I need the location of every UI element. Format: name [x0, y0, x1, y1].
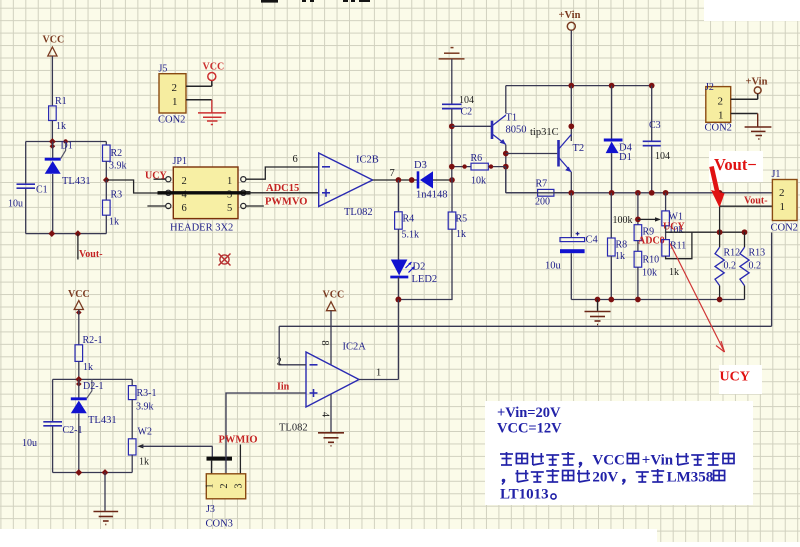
wire D3 to C2 column: [433, 179, 452, 181]
wire bottom rail (lower block): [53, 472, 133, 474]
W2 wiper arrow: [137, 444, 143, 448]
wire R12 down: [719, 286, 721, 300]
wire IC2A output: [359, 379, 398, 381]
svg-text:J1: J1: [772, 169, 781, 180]
svg-text:6: 6: [293, 154, 298, 165]
svg-text:HEADER 3X2: HEADER 3X2: [170, 223, 233, 234]
junction dots (lower): [75, 376, 82, 383]
svg-text:3.9k: 3.9k: [136, 402, 154, 413]
svg-text:8050: 8050: [506, 125, 527, 136]
junction dots R12 R13 top: [717, 229, 723, 235]
capacitor C1: [17, 183, 36, 185]
svg-text:1: 1: [376, 368, 381, 379]
jumper thick wire pins 4-3: [158, 191, 251, 194]
svg-text:J5: J5: [159, 64, 168, 75]
wire +Vin rail: [506, 85, 652, 87]
svg-text:W2: W2: [138, 427, 152, 438]
svg-text:D1: D1: [619, 152, 632, 163]
svg-text:VCC: VCC: [592, 453, 625, 469]
connector JP1 HEADER 3X2: [173, 167, 238, 219]
svg-text:R2: R2: [111, 148, 123, 159]
JP1 pin stubs left: [154, 178, 166, 180]
resistor R7 200: [505, 167, 507, 193]
wire T2 emitter down: [570, 172, 572, 193]
svg-text:ADC0: ADC0: [638, 236, 665, 247]
ground (IC2A): [318, 433, 344, 446]
wire ground to C2: [451, 59, 453, 104]
svg-text:Vout−: Vout−: [714, 155, 757, 174]
svg-text:PWMVO: PWMVO: [265, 197, 307, 208]
svg-text:0.2: 0.2: [724, 261, 737, 272]
svg-text:CON2: CON2: [158, 115, 185, 126]
svg-text:R4: R4: [403, 214, 415, 225]
svg-text:R8: R8: [616, 240, 628, 251]
op-amp IC2A TL082: [306, 352, 359, 407]
wire C1 to bottom rail: [25, 189, 27, 234]
svg-text:2: 2: [779, 187, 785, 199]
svg-text:UCY: UCY: [663, 222, 685, 233]
svg-text:2: 2: [718, 96, 724, 108]
wire bottom rail of block: [26, 233, 107, 235]
wire R5 down: [451, 229, 453, 299]
svg-text:4: 4: [320, 412, 331, 418]
svg-text:D2: D2: [413, 262, 426, 273]
svg-text:LM358: LM358: [667, 470, 714, 486]
resistor R2: [105, 142, 107, 146]
note line: shi ji zhi zuo shi, VCC he +Vin jie zai yi qi: [500, 452, 513, 465]
white patch behind Vout- annotation: [709, 151, 763, 182]
diode D3 1n4148: [417, 171, 420, 188]
svg-text:R6: R6: [471, 153, 483, 164]
svg-text:VCC=12V: VCC=12V: [497, 421, 562, 437]
wire R9/R10 column: [637, 193, 639, 225]
svg-text:1k: 1k: [615, 251, 625, 262]
junction dots output node: [396, 177, 402, 183]
wire feedback from J1 down: [771, 233, 773, 327]
ground (J2): [745, 127, 772, 139]
svg-text:5.1k: 5.1k: [402, 230, 420, 241]
wire J3 pin2 up to IC2A: [226, 393, 306, 474]
svg-text:1: 1: [780, 201, 786, 213]
svg-text:D2-1: D2-1: [83, 381, 104, 392]
svg-text:J2: J2: [705, 82, 714, 93]
JP1 pin5 stub: [246, 205, 264, 207]
svg-text:C3: C3: [649, 120, 661, 131]
svg-text:VCC: VCC: [323, 290, 345, 301]
no-ERC marker (red cross): [219, 254, 231, 266]
node R2/R3 junction: [103, 177, 110, 184]
wire bar to J3 pin1: [211, 461, 213, 474]
svg-text:D1: D1: [61, 141, 73, 152]
capacitor C2 104: [442, 103, 462, 105]
connector J3 CON3: [206, 474, 245, 499]
wire VCC to pin8: [330, 311, 332, 365]
capacitor C2-1: [43, 421, 62, 423]
svg-text:D3: D3: [414, 160, 427, 171]
wire W2 bottom: [131, 455, 133, 473]
svg-text:5: 5: [227, 203, 232, 214]
wire W1/R11 node to R12 R13: [666, 231, 745, 233]
wire D4 to output rail: [611, 153, 613, 193]
svg-text:R10: R10: [643, 255, 660, 266]
svg-text:10k: 10k: [471, 176, 486, 187]
junction dots bottom rail: [595, 297, 601, 303]
wire J3 pin3 stub (PWMIO): [239, 445, 241, 474]
wire R3-1 to W2: [131, 400, 133, 439]
resistor R1: [49, 106, 57, 121]
transistor T1 8050: [492, 115, 506, 144]
wire pin4 to ground: [330, 395, 332, 433]
svg-text:8: 8: [319, 340, 330, 345]
svg-text:10k: 10k: [642, 268, 657, 279]
wire R2 to node: [105, 161, 107, 180]
wire C3 to output rail: [651, 146, 653, 193]
wire J2 pin2 to +Vin: [731, 98, 758, 100]
svg-text:C2: C2: [461, 107, 473, 118]
svg-text:1k: 1k: [83, 362, 93, 373]
junction dots bottom (lower): [75, 469, 82, 476]
svg-text:R12: R12: [724, 248, 741, 259]
svg-text:104: 104: [655, 151, 670, 162]
svg-text:R7: R7: [536, 179, 548, 190]
capacitor C3 104: [651, 86, 653, 141]
wire bottom node D2-R5: [398, 299, 452, 301]
annotation big red arrow: [712, 167, 718, 194]
svg-text:1k: 1k: [669, 267, 679, 278]
LED D2: [391, 260, 408, 276]
wire left branch down to C2-1: [52, 379, 54, 421]
wire R3 to bottom rail: [105, 215, 107, 233]
wire base node to T1: [452, 125, 492, 127]
svg-text:+Vin=20V: +Vin=20V: [497, 405, 561, 421]
resistor R11: [662, 240, 670, 257]
potentiometer wiper arrow to W1: [638, 218, 658, 220]
svg-text:J3: J3: [206, 504, 215, 515]
note line: , ji yun fang dian ya 20V, yun fang LM358 huo: [502, 479, 506, 483]
svg-text:1k: 1k: [139, 457, 149, 468]
wire bottom rail (right): [571, 299, 744, 301]
svg-text:6: 6: [182, 203, 187, 214]
svg-text:LT1013: LT1013: [500, 487, 549, 503]
svg-text:1k: 1k: [56, 121, 66, 132]
svg-text:1k: 1k: [456, 229, 466, 240]
svg-text:R3: R3: [111, 190, 123, 201]
svg-text:10u: 10u: [8, 199, 23, 210]
svg-text:CON3: CON3: [206, 519, 233, 530]
svg-text:C4: C4: [586, 235, 599, 246]
wire J2 pin1 to ground: [731, 113, 758, 115]
svg-text:JP1: JP1: [173, 156, 187, 167]
wire T1 collector up to +Vin rail: [505, 86, 507, 114]
svg-text:R13: R13: [749, 248, 766, 259]
svg-text:100k: 100k: [613, 215, 633, 226]
svg-text:IC2A: IC2A: [343, 342, 367, 353]
wire top rail (lower block): [53, 378, 133, 380]
annotation thin red arrow to UCY: [670, 244, 725, 353]
wire IC2A output rises to node: [397, 300, 399, 380]
junction dots bottom rail: [48, 230, 55, 237]
ground (J5, red): [198, 113, 226, 125]
wire left branch down: [25, 142, 27, 184]
svg-text:Vout-: Vout-: [744, 196, 768, 207]
potentiometer W2 1k: [128, 439, 136, 455]
wire J1 pin1 net: [720, 205, 773, 207]
wire long feedback rail: [279, 325, 771, 327]
wire TL431 anode down: [52, 174, 54, 234]
ground (lower block): [104, 473, 106, 511]
svg-text:C1: C1: [36, 185, 48, 196]
svg-text:1: 1: [227, 176, 232, 187]
connector J5: [159, 74, 186, 113]
resistor R8 1k: [610, 193, 612, 238]
svg-text:R3-1: R3-1: [137, 388, 157, 399]
svg-text:CON2: CON2: [705, 123, 732, 134]
junction dots on +Vin rail: [568, 83, 574, 89]
svg-text:3.9k: 3.9k: [109, 161, 127, 172]
svg-text:IC2B: IC2B: [356, 155, 379, 166]
wire JP1 pin1 to IC2B inverting input: [246, 167, 319, 179]
top edge cropped text fragments: [261, 0, 370, 3]
svg-text:TL431: TL431: [62, 176, 91, 187]
wire node to JP1 pin4 (UCY net): [106, 180, 165, 193]
wire R10 down: [637, 267, 639, 299]
svg-text:3: 3: [233, 484, 244, 489]
junction dot R6 node: [503, 164, 509, 170]
svg-text:+Vin: +Vin: [746, 77, 768, 88]
wire C2 down: [451, 109, 453, 180]
svg-text:R1: R1: [55, 96, 67, 107]
svg-text:T2: T2: [573, 143, 585, 154]
svg-text:+Vin: +Vin: [559, 10, 581, 21]
svg-text:TL082: TL082: [344, 207, 373, 218]
wire top rail of TL431 block: [26, 141, 107, 143]
wire to T2 base: [506, 153, 558, 155]
svg-text:0.2: 0.2: [749, 261, 762, 272]
wire R13 down: [744, 286, 746, 300]
wire JP1 pin3 to IC2B non-inverting input: [246, 192, 319, 194]
capacitor C4 10u (electrolytic): [570, 193, 572, 238]
svg-text:UCY: UCY: [145, 171, 167, 182]
wire C2-1 down: [52, 426, 54, 472]
junction dots output rail: [568, 190, 574, 196]
svg-text:7: 7: [390, 168, 395, 179]
wire +Vin down to rail: [570, 30, 572, 85]
svg-text:TL082: TL082: [279, 423, 308, 434]
JP1 pin circles right: [241, 177, 246, 182]
resistor R5 1k: [451, 180, 453, 212]
svg-text:20V: 20V: [592, 470, 618, 486]
svg-text:1k: 1k: [109, 217, 119, 228]
svg-text:UCY: UCY: [720, 370, 750, 385]
resistor R13 0.2: [744, 232, 746, 247]
resistor R12 0.2: [719, 193, 721, 248]
thick jumper bar at J3: [207, 457, 233, 461]
svg-text:ADC15: ADC15: [266, 183, 299, 194]
svg-text:Vout-: Vout-: [79, 249, 103, 260]
svg-text:VCC: VCC: [43, 35, 65, 46]
shunt regulator D2-1 TL431: [78, 379, 80, 397]
svg-text:2: 2: [172, 82, 178, 94]
svg-text:1: 1: [205, 484, 216, 489]
svg-text:R11: R11: [670, 241, 686, 252]
resistor R4 5.1k: [397, 180, 399, 212]
connector J1: [772, 180, 797, 221]
ground (bottom rail): [597, 300, 599, 311]
ground (inverted, above C2): [439, 48, 465, 59]
op-amp IC2B TL082: [319, 153, 373, 207]
wire IC2A inverting input loop: [279, 326, 306, 365]
wire Vout- stub: [77, 234, 79, 260]
wire R4 to LED D2: [397, 229, 399, 259]
svg-text:+Vin: +Vin: [642, 453, 674, 469]
diode D4 (zener): [611, 86, 613, 139]
svg-text:1n4148: 1n4148: [416, 190, 448, 201]
white patch behind UCY annotation: [719, 365, 762, 394]
wire R11 bottom loop: [666, 232, 692, 259]
resistor R2-1 1k: [75, 345, 83, 362]
shunt regulator D1 TL431: [52, 142, 54, 159]
svg-text:Iin: Iin: [277, 382, 290, 393]
wire output rail: [506, 192, 773, 194]
svg-text:2: 2: [219, 484, 230, 489]
svg-text:VCC: VCC: [203, 62, 225, 73]
wire VCC to R1: [51, 56, 53, 106]
svg-text:10u: 10u: [545, 261, 562, 272]
svg-text:T1: T1: [506, 113, 518, 124]
wire C4 down to bottom rail: [570, 253, 572, 299]
svg-text:104: 104: [459, 95, 474, 106]
svg-text:2: 2: [277, 357, 282, 368]
svg-text:R2-1: R2-1: [83, 335, 103, 346]
junction dot C2/base node: [449, 123, 455, 129]
wire W1 to R11: [665, 226, 667, 240]
wire TL431 anode down: [78, 414, 80, 473]
svg-text:TL431: TL431: [88, 415, 117, 426]
connector J2: [706, 87, 731, 123]
wire wiper to J3 pin1: [211, 446, 213, 457]
svg-text:10u: 10u: [22, 438, 37, 449]
potentiometer W1 10k: [665, 193, 667, 211]
resistor R9: [634, 225, 642, 241]
wire R1 to node: [51, 121, 53, 142]
resistor R3-1 3.9k: [131, 379, 133, 385]
wire J5 pin1 to ground: [186, 99, 212, 101]
wire IC2B output: [373, 179, 418, 181]
wire R2-1 to node: [78, 361, 80, 379]
svg-text:VCC: VCC: [68, 289, 90, 300]
wire J5 pin2 to VCC: [186, 85, 212, 87]
svg-text:200: 200: [535, 197, 550, 208]
svg-text:tip31C: tip31C: [530, 127, 559, 138]
node junction dots top rail: [49, 138, 56, 145]
wire D2 to bottom node: [397, 277, 399, 300]
resistor R10 10k: [637, 241, 639, 252]
JP1 pin circles left: [166, 177, 171, 182]
svg-text:R5: R5: [456, 214, 468, 225]
resistor R3: [105, 180, 107, 200]
svg-text:CON2: CON2: [771, 223, 798, 234]
svg-text:1: 1: [718, 110, 724, 122]
wire T1 emitter down: [505, 145, 507, 193]
svg-text:LED2: LED2: [412, 274, 438, 285]
svg-text:PWMIO: PWMIO: [219, 435, 258, 446]
wire rail down to T2 collector: [570, 86, 572, 141]
wire VCC to R2-1: [78, 310, 80, 345]
svg-text:1: 1: [172, 96, 178, 108]
svg-text:2: 2: [182, 176, 187, 187]
junction dot T1 emitter / T2 base: [503, 151, 509, 157]
resistor R6 10k: [452, 166, 471, 168]
svg-text:C2-1: C2-1: [63, 425, 83, 436]
transistor T2: [559, 135, 572, 173]
